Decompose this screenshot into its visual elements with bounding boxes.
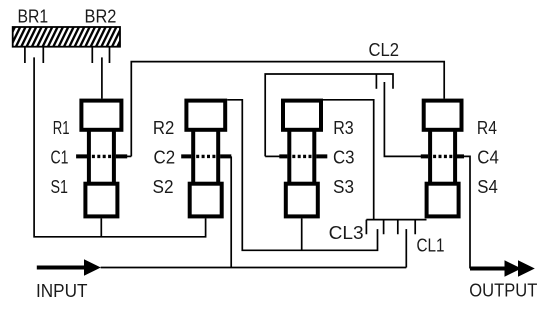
svg-text:R4: R4 — [477, 118, 497, 138]
svg-text:BR2: BR2 — [85, 7, 117, 27]
svg-text:BR1: BR1 — [18, 7, 49, 27]
svg-text:R2: R2 — [153, 118, 174, 138]
svg-text:OUTPUT: OUTPUT — [469, 281, 537, 301]
svg-text:C3: C3 — [333, 148, 355, 168]
svg-text:INPUT: INPUT — [36, 281, 88, 301]
svg-text:CL1: CL1 — [417, 236, 445, 256]
svg-text:C4: C4 — [477, 148, 499, 168]
svg-text:R3: R3 — [333, 118, 354, 138]
svg-text:S1: S1 — [51, 177, 69, 197]
svg-text:S4: S4 — [477, 177, 498, 197]
svg-text:C2: C2 — [154, 148, 176, 168]
svg-text:CL3: CL3 — [329, 223, 364, 243]
svg-text:S3: S3 — [333, 177, 354, 197]
svg-text:CL2: CL2 — [369, 40, 400, 60]
svg-text:R1: R1 — [53, 118, 70, 138]
svg-text:S2: S2 — [153, 177, 174, 197]
svg-text:C1: C1 — [51, 148, 69, 168]
